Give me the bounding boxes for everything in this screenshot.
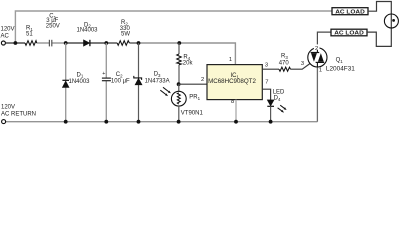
wire D1 riser xyxy=(65,43,67,80)
svg-text:D4: D4 xyxy=(274,96,281,102)
IC1 MC68HC908QT2 xyxy=(207,65,262,100)
capacitor C2 100uF xyxy=(102,77,111,79)
node dot C2 bottom xyxy=(104,120,108,124)
resistor R3 470 xyxy=(279,67,291,71)
node dot D3 top xyxy=(137,41,141,45)
svg-text:2: 2 xyxy=(201,77,204,83)
wire main bus gray part xyxy=(139,43,236,65)
svg-text:8: 8 xyxy=(231,99,234,105)
svg-text:MC68HC908QT2: MC68HC908QT2 xyxy=(208,79,256,85)
svg-text:AC: AC xyxy=(1,34,10,40)
svg-text:L2004F31: L2004F31 xyxy=(326,66,356,72)
resistor R4 20k vertical xyxy=(178,43,180,54)
node junction R4/PR1/pin2 xyxy=(177,82,181,86)
svg-text:2: 2 xyxy=(315,46,318,52)
svg-text:R3: R3 xyxy=(281,54,288,60)
LED D4 xyxy=(267,100,274,106)
node dot D1 bottom xyxy=(64,120,68,124)
node dot PR1 bottom xyxy=(177,120,181,124)
svg-text:250V: 250V xyxy=(46,24,60,30)
svg-text:Q1: Q1 xyxy=(336,57,344,63)
triac Q1 L2004F31 xyxy=(317,32,331,48)
svg-text:1N4003: 1N4003 xyxy=(77,28,99,34)
svg-text:1: 1 xyxy=(229,57,232,63)
wire IC pin2 xyxy=(179,83,207,85)
svg-text:D1: D1 xyxy=(77,72,84,78)
diode D1 1N4003 (cathode up) xyxy=(62,79,69,81)
resistor R2 xyxy=(117,41,129,46)
svg-text:3: 3 xyxy=(301,61,304,67)
node dot LED bottom xyxy=(269,120,273,124)
wire top rail xyxy=(15,11,332,43)
svg-text:1N4733A: 1N4733A xyxy=(145,78,170,84)
wire upper loop to source xyxy=(368,2,391,29)
svg-text:51: 51 xyxy=(26,31,33,37)
wire pin8 riser xyxy=(235,100,237,122)
PR1 light arrows xyxy=(160,87,171,96)
svg-text:20k: 20k xyxy=(183,61,194,67)
wire bottom rail xyxy=(6,121,318,123)
svg-text:5W: 5W xyxy=(121,32,130,38)
node dot D3 bottom xyxy=(137,120,141,124)
svg-text:VT90N1: VT90N1 xyxy=(181,111,204,117)
svg-text:120V: 120V xyxy=(1,104,15,110)
diode D2 1N4003 xyxy=(84,40,90,46)
node dot R4 top xyxy=(177,41,181,45)
svg-text:120V: 120V xyxy=(1,27,15,33)
AC LOAD box upper xyxy=(332,8,368,15)
svg-text:+: + xyxy=(102,71,105,77)
capacitor C1 xyxy=(48,40,50,47)
wire lower loop to source xyxy=(367,28,391,46)
svg-text:7: 7 xyxy=(265,80,268,86)
node dot D1 top xyxy=(64,41,68,45)
svg-text:470: 470 xyxy=(279,60,290,66)
svg-text:3: 3 xyxy=(265,62,268,68)
photoresistor PR1 VT90N1 xyxy=(178,84,180,91)
terminal 120V AC xyxy=(1,41,5,45)
wire bus left segments xyxy=(6,42,25,44)
wire D3 riser xyxy=(138,43,140,78)
wire C2 riser xyxy=(105,43,107,78)
node junction dot left xyxy=(14,41,18,45)
svg-text:D3: D3 xyxy=(154,72,161,78)
svg-text:AC LOAD: AC LOAD xyxy=(335,9,365,15)
AC source xyxy=(384,14,398,28)
svg-text:PR1: PR1 xyxy=(189,95,200,101)
svg-text:AC LOAD: AC LOAD xyxy=(334,31,364,37)
pin 2 label xyxy=(314,44,320,50)
svg-text:1N4003: 1N4003 xyxy=(69,79,91,85)
svg-text:1: 1 xyxy=(319,68,322,74)
AC LOAD box lower xyxy=(331,29,367,36)
svg-text:AC RETURN: AC RETURN xyxy=(1,112,36,118)
zener D3 1N4733A xyxy=(134,76,142,80)
wire pin3 to R3 xyxy=(262,68,279,70)
node dot C2 top xyxy=(104,41,108,45)
resistor R1 xyxy=(25,41,37,46)
svg-text:100 µF: 100 µF xyxy=(111,78,130,84)
wire pin7 to LED xyxy=(262,89,270,100)
wire R3 to gate xyxy=(291,63,311,69)
terminal 120V AC RETURN xyxy=(2,120,6,124)
